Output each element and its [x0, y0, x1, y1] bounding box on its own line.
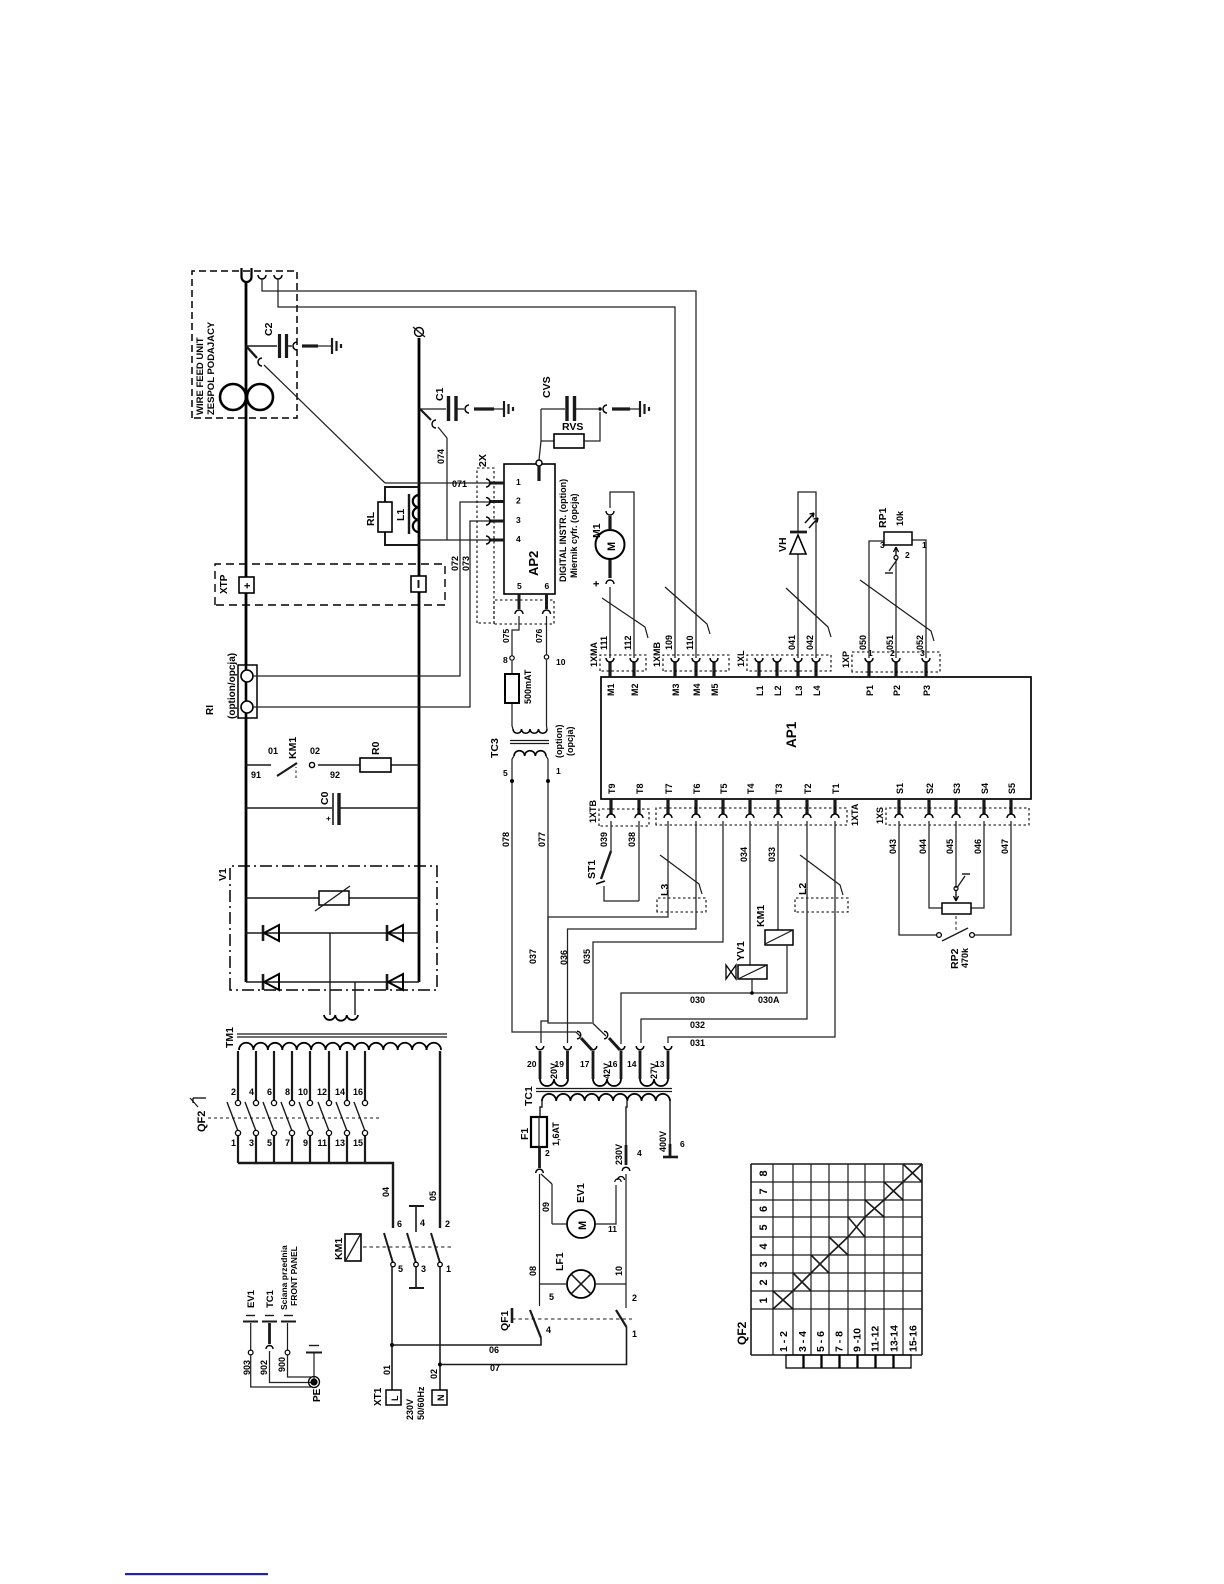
svg-text:1XP: 1XP — [841, 651, 851, 668]
wire feed unit dashed enclosure — [192, 271, 297, 418]
svg-text:15-16: 15-16 — [908, 1325, 920, 1352]
svg-text:QF2: QF2 — [735, 1321, 749, 1345]
junction dot L node — [390, 1343, 394, 1347]
ground - C1 earth — [503, 401, 505, 417]
AP1 pin S1 — [897, 799, 900, 814]
svg-text:07: 07 — [490, 1363, 500, 1373]
connector 1XS dotted box — [886, 808, 1029, 825]
svg-text:(option/opcja): (option/opcja) — [227, 653, 238, 719]
diode column row1 — [246, 932, 419, 934]
svg-text:91: 91 — [251, 770, 261, 780]
svg-text:050: 050 — [858, 635, 868, 650]
wire 109 run from feeder connector to 1XMB M4 — [262, 278, 696, 658]
F1 terminal 2 stub — [538, 1147, 541, 1168]
400V dead end bar — [663, 1156, 678, 1159]
svg-text:5: 5 — [267, 1138, 272, 1148]
svg-text:10: 10 — [556, 657, 566, 667]
svg-text:076: 076 — [534, 629, 544, 643]
AP1 pin M3 — [673, 662, 676, 677]
QF2 blade 3-4 — [245, 1102, 256, 1131]
wire 050 — [869, 541, 884, 658]
svg-text:4: 4 — [516, 534, 521, 544]
wire 900 to PE — [288, 1355, 312, 1377]
svg-text:RI: RI — [205, 705, 216, 715]
svg-text:(opcja): (opcja) — [565, 726, 575, 756]
svg-text:8: 8 — [285, 1087, 290, 1097]
RP2 wiper arrow — [954, 891, 959, 901]
transformer TC3 core — [510, 743, 549, 745]
svg-text:10: 10 — [614, 1266, 624, 1276]
TM1 tap stub 4 — [255, 1051, 257, 1100]
svg-text:04: 04 — [381, 1187, 391, 1197]
terminal XT1 N box — [432, 1390, 447, 1405]
svg-text:036: 036 — [559, 950, 569, 965]
svg-text:072: 072 — [450, 556, 460, 571]
plug pin at tap 17 — [581, 1038, 592, 1050]
svg-text:031: 031 — [690, 1038, 705, 1048]
QF1 pole 2-1 blade — [616, 1310, 627, 1327]
svg-text:11-12: 11-12 — [870, 1326, 882, 1352]
230V tap hook — [622, 1167, 630, 1171]
wire 902 to PE — [270, 1351, 312, 1383]
svg-text:3: 3 — [249, 1138, 254, 1148]
TC1 primary 400V tap lead — [669, 1101, 671, 1144]
TC1 tap 19 stub — [566, 1051, 569, 1079]
QF1 dashed axis — [512, 1318, 632, 1320]
svg-text:20V: 20V — [549, 1063, 559, 1079]
TM1 tap stub 2 — [237, 1051, 239, 1100]
AP1 box — [601, 677, 1031, 799]
slash across 109 110 — [665, 587, 710, 634]
TC3 terminal 1 dot — [546, 756, 548, 759]
svg-text:1: 1 — [516, 477, 521, 487]
wire feed drive roll lower — [247, 384, 273, 410]
svg-text:13: 13 — [335, 1138, 345, 1148]
QF2 dashed axis — [208, 1117, 379, 1119]
svg-text:+: + — [324, 816, 333, 821]
EV1 lead connector hook — [615, 1179, 621, 1182]
TC1 secondary 20V winding — [540, 1079, 568, 1086]
C1 contact arm on minus bus — [420, 409, 431, 420]
XTP minus terminal — [411, 576, 426, 592]
svg-text:PE: PE — [312, 1388, 323, 1402]
QF2 table tabs — [786, 1355, 803, 1368]
RP2 wiper lever — [958, 876, 966, 887]
wire 110 run from feeder connector to 1XMB M3 — [278, 279, 675, 658]
wire 036 T6 to tap19 — [568, 821, 697, 1043]
switch ST1 arm — [601, 851, 611, 879]
svg-text:1: 1 — [446, 1264, 451, 1274]
svg-text:Sciana przednia: Sciana przednia — [279, 1245, 289, 1310]
L3 dotted box — [657, 898, 706, 912]
svg-text:8: 8 — [503, 655, 508, 665]
svg-text:2: 2 — [545, 1148, 550, 1158]
TM1 tap stub 8 — [291, 1051, 293, 1100]
slash across 041 042 — [786, 588, 831, 637]
svg-text:S3: S3 — [952, 783, 962, 794]
AP1 pin T1 — [833, 799, 836, 814]
slash across 050 051 052 — [860, 580, 934, 641]
C1 pin bar — [474, 407, 494, 410]
QF2 blade 13-14 — [336, 1102, 347, 1131]
svg-text:T7: T7 — [664, 783, 674, 794]
RP1 wiper lever — [889, 559, 898, 571]
fan motor EV1 circle — [567, 1210, 595, 1238]
svg-text:077: 077 — [537, 832, 547, 847]
svg-text:109: 109 — [664, 635, 674, 650]
svg-text:QF1: QF1 — [499, 1310, 511, 1331]
2X dotted box pins 5-6 — [494, 600, 554, 624]
TC1 tap 13 stub — [667, 1051, 670, 1079]
L1 core bar — [408, 494, 410, 534]
svg-text:T3: T3 — [774, 783, 784, 794]
diode D3 — [262, 974, 265, 990]
svg-text:042: 042 — [805, 635, 815, 650]
QF2 lower contact 1 — [235, 1130, 240, 1135]
capacitor C0 plates — [332, 793, 334, 825]
RVS bottom lead — [584, 412, 600, 441]
svg-text:L: L — [390, 1395, 400, 1401]
XTP plus terminal — [239, 577, 254, 593]
TC1 tap 17 stub — [592, 1051, 595, 1079]
wire feed unit connector pin a — [258, 275, 266, 279]
svg-text:2: 2 — [905, 550, 910, 560]
LED VH arrows — [809, 518, 818, 528]
QF2 blade 9-10 — [299, 1102, 310, 1131]
AP2 pin 6 — [545, 594, 548, 609]
wire 072 from RI to AP2 pin 2 — [253, 502, 490, 676]
ground - CVS earth — [639, 401, 641, 417]
svg-text:T1: T1 — [831, 783, 841, 794]
contactor KM1 coil box — [345, 1234, 361, 1261]
QF1 pole 5-4 blade — [530, 1310, 541, 1338]
ST1 fixed side — [604, 886, 639, 901]
QF2 table X marks — [773, 1291, 793, 1309]
svg-text:7 - 8: 7 - 8 — [834, 1331, 846, 1352]
svg-text:034: 034 — [739, 847, 749, 862]
svg-text:110: 110 — [685, 635, 695, 650]
capacitor EV1 suppression — [243, 1321, 258, 1323]
node AP2 sense — [540, 409, 542, 441]
svg-text:02: 02 — [429, 1369, 439, 1379]
svg-text:230V: 230V — [405, 1399, 415, 1420]
connector 1XTA dotted box — [656, 808, 847, 825]
transformer TM1 secondary winding — [324, 1015, 358, 1021]
diode D4 — [386, 974, 389, 990]
KM1 pole 4-3 dead end bar — [415, 1267, 417, 1288]
svg-text:074: 074 — [436, 449, 446, 464]
svg-text:S4: S4 — [980, 783, 990, 794]
svg-text:470k: 470k — [960, 947, 970, 968]
svg-text:RL: RL — [365, 511, 377, 526]
svg-text:M4: M4 — [692, 683, 702, 696]
wire 045 wiper — [955, 821, 957, 888]
AP1 pin P1 — [867, 662, 870, 677]
motor M1 circle — [596, 530, 625, 559]
svg-text:F1: F1 — [519, 1128, 531, 1140]
svg-text:TC1: TC1 — [523, 1086, 535, 1106]
svg-text:3: 3 — [880, 540, 885, 550]
AP1 pin T3 — [776, 799, 779, 814]
svg-text:038: 038 — [627, 832, 637, 847]
svg-text:DIGITAL INSTR. (option): DIGITAL INSTR. (option) — [558, 479, 568, 582]
wire 032 T2 to tap14 — [641, 821, 807, 1043]
svg-text:073: 073 — [461, 556, 471, 571]
svg-text:M1: M1 — [606, 683, 616, 696]
svg-text:P1: P1 — [865, 685, 875, 696]
svg-text:902: 902 — [259, 1360, 269, 1375]
svg-text:L4: L4 — [812, 685, 822, 696]
svg-text:1XMB: 1XMB — [652, 641, 662, 667]
contact hook at C2 node — [258, 358, 262, 366]
svg-text:Miernik cyfr. (opcja): Miernik cyfr. (opcja) — [569, 493, 579, 578]
svg-text:4: 4 — [758, 1243, 770, 1250]
svg-text:C1: C1 — [434, 387, 446, 401]
KM1 pole 2-1 blade — [431, 1233, 440, 1263]
wire 046 — [971, 821, 984, 908]
svg-text:2: 2 — [231, 1087, 236, 1097]
CVS pin bar — [612, 407, 630, 410]
svg-text:13-14: 13-14 — [889, 1325, 901, 1352]
wire 112 loop — [610, 492, 634, 658]
TC1 secondary 27V winding — [640, 1079, 668, 1086]
svg-text:12: 12 — [317, 1087, 327, 1097]
svg-text:(option): (option) — [554, 725, 564, 758]
wire 047 — [975, 821, 1011, 935]
svg-text:V1: V1 — [217, 868, 229, 881]
QF2 lower contact 5 — [271, 1130, 276, 1135]
svg-text:RP1: RP1 — [877, 507, 889, 528]
ground - C2 earth — [331, 338, 333, 354]
svg-text:5: 5 — [758, 1224, 770, 1230]
svg-text:030A: 030A — [758, 995, 780, 1005]
svg-text:4: 4 — [420, 1218, 425, 1228]
2X dotted box pins 1-4 — [477, 468, 494, 623]
svg-text:XT1: XT1 — [373, 1387, 384, 1406]
AP2 pin 5 — [518, 594, 521, 609]
motor M1 upper hook — [606, 511, 614, 515]
wire 043 — [899, 821, 936, 935]
svg-text:+: + — [242, 583, 254, 589]
TC3 terminal 5 dot — [512, 756, 514, 759]
EV1 branch 09 — [541, 1174, 552, 1184]
svg-text:230V: 230V — [614, 1144, 624, 1165]
AP2 box — [504, 464, 555, 594]
AP1 pin L1 — [757, 662, 760, 677]
wire 075 AP2 pin5 to fuse — [512, 616, 519, 656]
svg-text:4: 4 — [249, 1087, 254, 1097]
svg-text:2X: 2X — [477, 454, 489, 467]
varistor box — [319, 891, 349, 905]
svg-text:01: 01 — [382, 1365, 392, 1375]
svg-text:KM1: KM1 — [333, 1238, 345, 1260]
connector 1XMA dotted box — [600, 655, 646, 671]
wire 04 QF2 common bus — [238, 1163, 393, 1228]
capacitor C2 plates — [278, 334, 281, 358]
TC1 primary lead to F1 — [540, 1101, 542, 1117]
svg-text:1 - 2: 1 - 2 — [778, 1331, 790, 1352]
dashed tie KM1 aux — [295, 767, 297, 778]
svg-text:ST1: ST1 — [586, 860, 598, 879]
svg-text:10k: 10k — [895, 510, 905, 526]
svg-text:903: 903 — [242, 1360, 252, 1375]
svg-text:FRONT PANEL: FRONT PANEL — [289, 1246, 299, 1306]
AP1 pin T5 — [721, 799, 724, 814]
KM1 pole 6-5 lower wire to XT1 L — [391, 1267, 393, 1390]
TC1 secondary 42V winding — [593, 1079, 621, 1086]
svg-text:TM1: TM1 — [224, 1027, 236, 1048]
svg-text:5: 5 — [398, 1264, 403, 1274]
AP1 pin L3 — [796, 662, 799, 677]
lamp LF1 circle — [567, 1270, 595, 1298]
svg-text:M5: M5 — [710, 683, 720, 696]
AP1 pin T6 — [694, 799, 697, 814]
svg-text:T4: T4 — [746, 783, 756, 794]
RP1 wiper arrow — [894, 547, 899, 555]
TC3 secondary winding — [513, 729, 547, 733]
svg-text:10: 10 — [298, 1087, 308, 1097]
svg-text:3: 3 — [421, 1264, 426, 1274]
svg-text:6: 6 — [545, 581, 550, 591]
svg-text:2: 2 — [758, 1279, 770, 1285]
connector 1XTB dotted box — [599, 809, 649, 826]
potentiometer RP1 box — [884, 532, 912, 545]
svg-text:1: 1 — [632, 1329, 637, 1339]
svg-text:CVS: CVS — [541, 376, 553, 398]
wire feed drive roll upper — [220, 384, 246, 410]
AP1 pin M2 — [632, 662, 635, 677]
svg-text:5: 5 — [503, 768, 508, 778]
torch terminal circle with slash — [415, 328, 424, 337]
wire 042 loop — [798, 492, 816, 658]
TM1 tap stub 16 — [364, 1051, 366, 1100]
svg-text:L1: L1 — [395, 509, 407, 521]
svg-text:05: 05 — [428, 1191, 438, 1201]
svg-text:032: 032 — [690, 1020, 705, 1030]
KM1 pole 4-3 blade — [407, 1233, 416, 1263]
EV1 lower lead 11 — [595, 1185, 616, 1224]
svg-text:11: 11 — [608, 1224, 617, 1234]
svg-text:14: 14 — [335, 1087, 345, 1097]
CVS output node dot — [598, 407, 602, 411]
svg-text:7: 7 — [285, 1138, 290, 1148]
LF1 leads — [540, 1283, 568, 1285]
wire 031 T1 to tap13 — [668, 821, 835, 1043]
svg-text:5 - 6: 5 - 6 — [815, 1331, 827, 1352]
L2 dotted box — [795, 898, 848, 912]
svg-text:075: 075 — [501, 629, 511, 643]
KM1 pole 4-3 upper stub — [409, 1205, 424, 1207]
svg-text:2: 2 — [632, 1293, 637, 1303]
svg-text:051: 051 — [885, 635, 895, 650]
svg-text:TC1: TC1 — [265, 1289, 276, 1308]
svg-text:KM1: KM1 — [755, 905, 767, 927]
TM1 tap stub 14 — [346, 1051, 348, 1100]
slash L2 across T2 T1 — [800, 855, 843, 895]
wire from C1 contact to 074 — [438, 427, 447, 438]
wire TM1 secondary lead 1 — [329, 933, 331, 1015]
svg-text:N: N — [436, 1395, 446, 1402]
svg-text:500mAT: 500mAT — [523, 669, 533, 704]
wire - negative output bus from rectifier to torch terminal — [418, 338, 421, 982]
wire 111 — [609, 587, 611, 658]
svg-text:112: 112 — [623, 635, 633, 650]
svg-text:M: M — [577, 1221, 589, 1230]
svg-text:2: 2 — [445, 1219, 450, 1229]
diode D2 — [386, 925, 389, 941]
YV1 return lead — [751, 979, 753, 993]
connector 1XMB dotted box — [663, 655, 729, 671]
QF2 blade 5-6 — [263, 1102, 274, 1131]
QF2 lower contact 11 — [326, 1130, 331, 1135]
wire 06 from L node to QF1 pole 4 — [392, 1338, 541, 1345]
varistor branch wire — [246, 897, 419, 899]
capacitor front panel suppression — [281, 1321, 296, 1323]
diode D1 — [262, 925, 265, 941]
capacitor C1 branch — [419, 408, 446, 410]
QF2 blade 7-8 — [281, 1102, 292, 1131]
QF2 lower contact 7 — [289, 1130, 294, 1135]
wire 071 from diagonal node to AP2 pin1 — [385, 482, 483, 484]
QF2 blade 15-16 — [354, 1102, 365, 1131]
motor M1 lower stub — [608, 559, 611, 578]
TC1 tap 20 stub — [539, 1051, 542, 1079]
svg-text:047: 047 — [1000, 839, 1010, 854]
svg-text:RVS: RVS — [562, 421, 583, 433]
svg-text:M1: M1 — [591, 523, 603, 538]
resistor R0 box — [360, 758, 391, 772]
QF2 lower contact 13 — [344, 1130, 349, 1135]
svg-text:EV1: EV1 — [575, 1183, 587, 1203]
svg-text:C0: C0 — [319, 791, 331, 805]
varistor diagonal — [315, 886, 350, 911]
slash across 111 112 — [602, 598, 648, 638]
svg-text:KM1: KM1 — [287, 737, 299, 759]
svg-text:9: 9 — [303, 1138, 308, 1148]
svg-text:4: 4 — [637, 1148, 642, 1158]
wire 035 T5 to tap16 plug — [593, 821, 723, 1023]
wire 041 — [797, 554, 799, 658]
svg-text:S1: S1 — [895, 783, 905, 794]
transformer TC1 core — [536, 1091, 672, 1093]
AP1 pin L4 — [814, 662, 817, 677]
svg-text:030: 030 — [690, 995, 705, 1005]
wire - positive output bus from rectifier to wire feed unit — [245, 282, 248, 982]
wire 076 AP2 pin6 to terminal 10 — [546, 616, 548, 655]
svg-text:16: 16 — [353, 1087, 363, 1097]
YV1 valve bowtie — [726, 965, 736, 979]
svg-text:041: 041 — [787, 635, 797, 650]
connector RI box — [238, 665, 257, 718]
C2 connector pin bar — [302, 344, 318, 347]
svg-text:1: 1 — [556, 766, 561, 776]
KM1 pole 2-1 lower wire to XT1 N — [439, 1267, 441, 1390]
resistor RVS box — [554, 434, 584, 448]
motor M1 upper stub — [608, 516, 611, 530]
AP1 pin T8 — [637, 799, 640, 814]
svg-text:1XTA: 1XTA — [850, 803, 860, 826]
svg-text:5: 5 — [549, 1292, 554, 1302]
connector 1XL dotted box — [747, 655, 831, 671]
TC1 tap 14 stub — [639, 1051, 642, 1079]
TC1 tap 16 stub — [620, 1051, 623, 1079]
wire 077 TC3-1 to tap16 plug — [548, 783, 592, 1023]
AP1 pin P2 — [894, 662, 897, 677]
QF2 blade 1-2 — [227, 1102, 238, 1131]
svg-text:LF1: LF1 — [554, 1252, 566, 1271]
svg-text:+: + — [591, 581, 603, 587]
QF2 blade 11-12 — [318, 1102, 329, 1131]
